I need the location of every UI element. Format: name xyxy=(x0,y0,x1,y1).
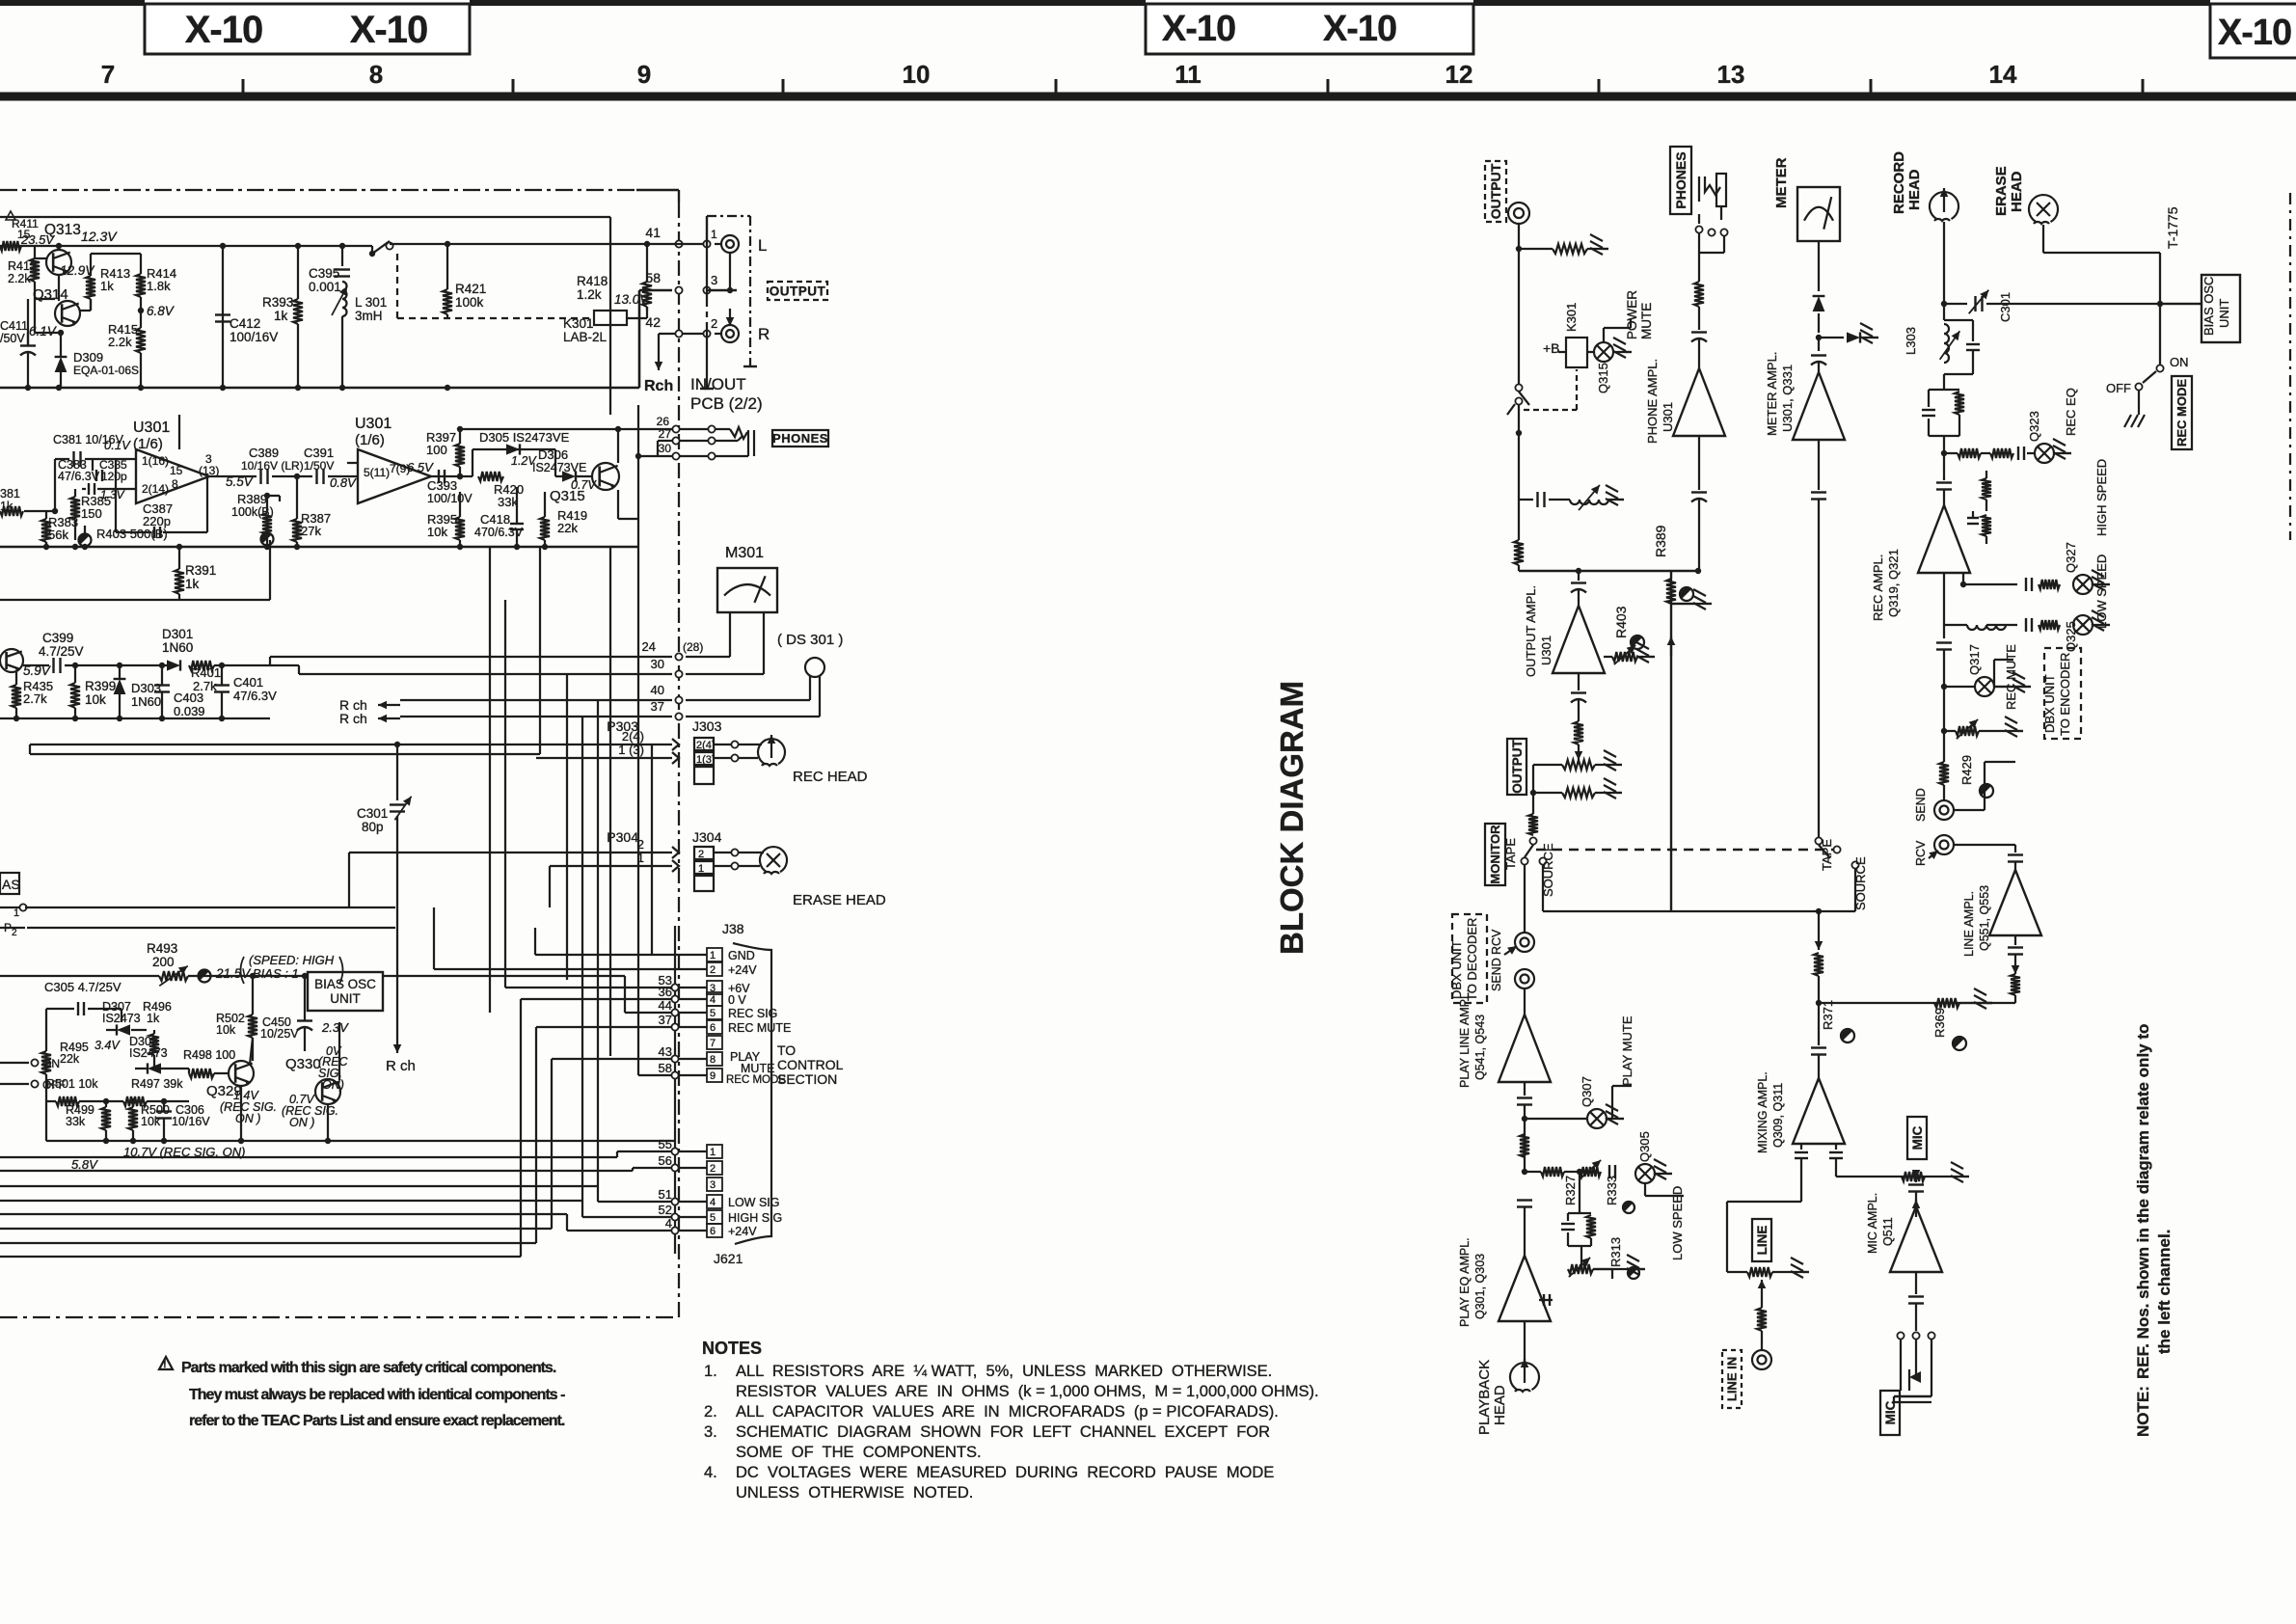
svg-text:33k: 33k xyxy=(498,495,518,509)
svg-text:55: 55 xyxy=(659,1137,672,1151)
svg-text:ON ): ON ) xyxy=(235,1112,260,1125)
svg-text:3mH: 3mH xyxy=(355,309,383,323)
output jack L xyxy=(721,235,739,253)
svg-text:R501 10k: R501 10k xyxy=(46,1077,98,1091)
svg-text:SEND: SEND xyxy=(1490,958,1503,991)
svg-text:C301: C301 xyxy=(357,806,388,821)
svg-text:1: 1 xyxy=(698,863,704,875)
svg-text:Q319, Q321: Q319, Q321 xyxy=(1886,549,1901,617)
svg-text:30: 30 xyxy=(651,657,664,671)
svg-text:ON): ON) xyxy=(322,1078,344,1092)
svg-text:10/25V: 10/25V xyxy=(260,1027,299,1041)
svg-text:REC MUTE: REC MUTE xyxy=(2004,644,2018,710)
svg-text:2.2k: 2.2k xyxy=(108,335,132,349)
title box X-10 left xyxy=(145,4,470,54)
jack RCV encoder xyxy=(1934,835,1954,854)
svg-text:7: 7 xyxy=(101,60,115,89)
phones jack symbol xyxy=(708,425,715,432)
svg-text:HIGH SPEED: HIGH SPEED xyxy=(2094,459,2109,536)
r327 sub network xyxy=(1579,1172,1580,1213)
svg-text:TO: TO xyxy=(777,1042,796,1058)
svg-text:MONITOR: MONITOR xyxy=(1488,825,1502,884)
rec mode switch xyxy=(2157,301,2163,307)
branch low speed xyxy=(1522,1169,1527,1175)
wire J621 row4 xyxy=(0,1213,567,1215)
line pot row xyxy=(1727,1271,1747,1273)
wire P303 row2 xyxy=(536,757,672,759)
svg-text:10k: 10k xyxy=(85,692,106,707)
wire top feed xyxy=(0,216,610,218)
vertical from R389 xyxy=(1670,571,1672,911)
wire bias row to J38 xyxy=(383,975,625,977)
wire bus bottom upper-section xyxy=(0,387,639,390)
svg-text:U301: U301 xyxy=(355,416,392,432)
label PHONES box (block) xyxy=(1670,147,1691,214)
svg-text:OFF: OFF xyxy=(2106,381,2131,395)
svg-text:BLOCK DIAGRAM: BLOCK DIAGRAM xyxy=(1274,681,1310,955)
svg-text:2: 2 xyxy=(698,849,704,860)
svg-text:REC HEAD: REC HEAD xyxy=(793,769,868,785)
dashed monitor line xyxy=(1536,849,1837,851)
svg-text:1(16): 1(16) xyxy=(142,454,169,468)
resistor to ground top xyxy=(1516,246,1522,252)
wire P304 row2 xyxy=(550,865,672,867)
label OUTPUT solid (block) xyxy=(1507,739,1526,795)
svg-text:LINE: LINE xyxy=(1755,1226,1769,1256)
svg-text:X-10: X-10 xyxy=(2218,13,2291,53)
svg-text:Rch: Rch xyxy=(644,378,673,394)
svg-text:11: 11 xyxy=(1175,60,1202,89)
svg-text:AS: AS xyxy=(2,877,20,892)
svg-text:Q323: Q323 xyxy=(2027,411,2041,442)
svg-text:Q301, Q303: Q301, Q303 xyxy=(1473,1254,1487,1319)
svg-text:1N60: 1N60 xyxy=(131,694,161,709)
svg-text:6: 6 xyxy=(710,1022,716,1034)
svg-text:10k: 10k xyxy=(141,1115,161,1128)
label MONITOR box xyxy=(1485,824,1505,885)
svg-text:ON ): ON ) xyxy=(289,1116,314,1129)
wire row27 xyxy=(658,440,672,442)
svg-text:C401: C401 xyxy=(233,675,263,690)
amp LINE AMPL xyxy=(2014,845,2016,853)
output ampl chain down xyxy=(1578,673,1580,690)
svg-text:HEAD: HEAD xyxy=(1906,169,1923,210)
wire REC MODE row xyxy=(637,547,639,1075)
svg-text:Q330: Q330 xyxy=(285,1056,321,1072)
svg-text:J303: J303 xyxy=(692,718,722,734)
branch play mute Q307 xyxy=(1522,1116,1527,1122)
svg-text:C411: C411 xyxy=(0,319,28,333)
svg-text:1: 1 xyxy=(710,950,716,961)
svg-text:Q551, Q553: Q551, Q553 xyxy=(1978,885,1991,951)
cap rec chain xyxy=(1943,453,1945,480)
dashed link to relay xyxy=(1524,409,1577,411)
phones jack (block) xyxy=(1699,176,1720,202)
svg-text:PHONES: PHONES xyxy=(1673,151,1688,208)
wire top bus xyxy=(0,245,372,247)
svg-text:2: 2 xyxy=(710,1163,716,1175)
svg-text:10k: 10k xyxy=(216,1023,236,1037)
svg-text:OUTPUT: OUTPUT xyxy=(1510,740,1525,794)
svg-text:C399: C399 xyxy=(42,631,73,645)
svg-text:0.8V: 0.8V xyxy=(330,475,357,490)
svg-text:+24V: +24V xyxy=(728,1225,757,1238)
svg-text:D305 IS2473VE: D305 IS2473VE xyxy=(479,430,570,445)
svg-text:EQA-01-06S: EQA-01-06S xyxy=(73,364,139,377)
svg-text:J621: J621 xyxy=(714,1251,743,1266)
svg-text:4: 4 xyxy=(710,994,716,1006)
svg-text:1k: 1k xyxy=(100,279,114,293)
svg-text:24: 24 xyxy=(642,639,656,654)
svg-text:the left channel.: the left channel. xyxy=(2155,1230,2174,1354)
svg-text:PCB (2/2): PCB (2/2) xyxy=(690,394,763,413)
svg-text:C301: C301 xyxy=(1998,292,2012,322)
svg-text:4.: 4. xyxy=(704,1464,717,1481)
svg-text:UNLESS OTHERWISE NOTED.: UNLESS OTHERWISE NOTED. xyxy=(736,1484,973,1502)
title box X-10 right xyxy=(2210,4,2296,58)
svg-text:UNIT: UNIT xyxy=(2217,299,2231,328)
label DBX UNIT TO DECODER xyxy=(1452,914,1487,1003)
svg-text:R403 500(B): R403 500(B) xyxy=(96,527,168,541)
svg-text:27k: 27k xyxy=(301,524,321,538)
svg-text:10/16V: 10/16V xyxy=(172,1115,210,1128)
rec head contacts xyxy=(731,741,738,747)
svg-text:C389: C389 xyxy=(249,446,279,460)
svg-text:IS2473: IS2473 xyxy=(102,1012,141,1025)
svg-text:58: 58 xyxy=(645,270,661,285)
line amp out xyxy=(2014,935,2016,945)
wire GND row xyxy=(535,954,707,956)
svg-text:2(4): 2(4) xyxy=(622,729,644,744)
erase head symbol xyxy=(760,847,787,872)
svg-text:IS2473VE: IS2473VE xyxy=(532,461,586,474)
svg-text:L303: L303 xyxy=(1904,327,1918,355)
cap mixing xyxy=(1818,1003,1820,1045)
svg-text:C412: C412 xyxy=(230,316,260,331)
svg-text:R498 100: R498 100 xyxy=(183,1048,235,1062)
switch speed ON/OFF xyxy=(31,1059,38,1066)
svg-text:U301: U301 xyxy=(1661,402,1675,432)
svg-text:22k: 22k xyxy=(60,1052,80,1066)
svg-text:U301, Q331: U301, Q331 xyxy=(1780,365,1795,432)
svg-text:6.1V: 6.1V xyxy=(29,324,58,338)
wire 58 output vertical xyxy=(638,290,641,388)
wire bias bottom rail xyxy=(46,1140,405,1142)
svg-text:CONTROL: CONTROL xyxy=(777,1057,844,1072)
svg-text:P304: P304 xyxy=(607,829,638,845)
svg-text:23.5V: 23.5V xyxy=(20,232,55,247)
svg-text:HEAD: HEAD xyxy=(2009,171,2025,212)
svg-text:Q541, Q543: Q541, Q543 xyxy=(1473,1015,1487,1080)
svg-text:4: 4 xyxy=(710,1197,716,1208)
svg-text:RECORD: RECORD xyxy=(1891,151,1907,214)
cap into play eq amp xyxy=(1517,1199,1532,1201)
svg-text:2.: 2. xyxy=(704,1403,717,1421)
svg-text:27: 27 xyxy=(659,427,672,441)
svg-text:X-10: X-10 xyxy=(185,9,263,51)
svg-text:26: 26 xyxy=(657,415,670,428)
jack SEND encoder xyxy=(1934,800,1954,820)
svg-text:PHONE AMPL.: PHONE AMPL. xyxy=(1645,359,1660,444)
label BIAS box partial xyxy=(0,873,19,894)
phones contacts xyxy=(1695,226,1702,232)
svg-text:!: ! xyxy=(163,1359,167,1370)
diode meter xyxy=(1813,296,1825,311)
svg-text:METER: METER xyxy=(1773,157,1790,208)
svg-text:X-10: X-10 xyxy=(350,9,428,51)
svg-text:D301: D301 xyxy=(162,627,193,641)
svg-text:ON: ON xyxy=(2170,355,2189,369)
svg-text:R497 39k: R497 39k xyxy=(131,1077,183,1091)
svg-text:TAPE: TAPE xyxy=(1820,839,1834,871)
svg-text:TO DECODER: TO DECODER xyxy=(1465,918,1479,1001)
svg-text:BIAS OSC: BIAS OSC xyxy=(314,977,376,991)
svg-text:M301: M301 xyxy=(725,545,764,561)
svg-text:220p: 220p xyxy=(143,514,171,528)
svg-text:ERASE: ERASE xyxy=(1993,166,2010,216)
svg-text:PLAYBACK: PLAYBACK xyxy=(1476,1360,1493,1435)
svg-text:(1/6): (1/6) xyxy=(355,432,385,448)
PCB boundary dash-dot vertical xyxy=(678,190,680,203)
svg-text:2.7k: 2.7k xyxy=(193,679,217,693)
parallel rc 2 xyxy=(1929,389,1959,391)
svg-text:21.5V: 21.5V xyxy=(215,966,252,981)
svg-text:9: 9 xyxy=(637,60,651,89)
svg-text:U301: U301 xyxy=(133,420,170,436)
svg-text:R429: R429 xyxy=(1959,755,1974,785)
svg-text:REC EQ: REC EQ xyxy=(2064,388,2078,436)
wire J621 row55 xyxy=(0,1156,617,1158)
svg-text:100: 100 xyxy=(426,443,447,457)
svg-text:MIC: MIC xyxy=(1910,1125,1925,1150)
svg-text:MIC: MIC xyxy=(1883,1400,1898,1424)
svg-text:OUTPUT: OUTPUT xyxy=(770,284,826,298)
svg-text:1k: 1k xyxy=(147,1012,160,1025)
wire REC MUTE row xyxy=(0,1242,536,1244)
svg-text:REC SIG: REC SIG xyxy=(728,1007,777,1020)
wire vertical col C412 xyxy=(222,246,224,388)
resistor R369 xyxy=(1934,998,1959,1008)
svg-text:Q315: Q315 xyxy=(1596,363,1610,393)
wire PLAY row xyxy=(0,1228,552,1230)
svg-text:UNIT: UNIT xyxy=(330,991,361,1006)
wire row 24 xyxy=(270,656,672,658)
page top rule xyxy=(0,0,145,6)
svg-text:51: 51 xyxy=(659,1187,672,1202)
svg-text:42: 42 xyxy=(645,314,661,330)
jack SEND decoder xyxy=(1515,969,1534,988)
svg-text:3.: 3. xyxy=(704,1423,717,1441)
mic contacts xyxy=(1897,1332,1904,1339)
source contact xyxy=(1539,857,1546,864)
svg-text:LOW SPEED: LOW SPEED xyxy=(2094,555,2109,629)
right edge dash line xyxy=(2289,193,2291,540)
svg-text:HEAD: HEAD xyxy=(1492,1385,1508,1425)
svg-text:Q315: Q315 xyxy=(550,488,585,504)
tape contact xyxy=(1521,857,1527,864)
wire lower link row xyxy=(0,599,270,601)
svg-text:Q317: Q317 xyxy=(1967,644,1982,675)
wire row37 xyxy=(400,716,672,717)
svg-text:14: 14 xyxy=(1989,60,2017,89)
label MIC box bottom xyxy=(1880,1391,1900,1435)
svg-text:200: 200 xyxy=(152,955,175,969)
wire stub p1 xyxy=(19,904,26,910)
svg-text:2.3V: 2.3V xyxy=(321,1020,349,1035)
svg-text:+B: +B xyxy=(1543,340,1560,356)
boundary vertical solid segment xyxy=(674,926,676,1254)
svg-text:Q307: Q307 xyxy=(1580,1076,1594,1107)
svg-text:L: L xyxy=(758,236,767,255)
svg-text:SEND: SEND xyxy=(1914,788,1928,822)
phone amp chain down xyxy=(1698,436,1700,490)
capacitor into output ampl xyxy=(1578,571,1580,581)
svg-text:37: 37 xyxy=(659,1013,672,1027)
svg-text:R421: R421 xyxy=(455,282,486,296)
svg-text:Q305: Q305 xyxy=(1637,1131,1652,1162)
svg-text:36: 36 xyxy=(659,985,672,999)
svg-text:SOME OF THE COMPONENTS.: SOME OF THE COMPONENTS. xyxy=(736,1444,982,1461)
wire right border vertical xyxy=(637,405,639,547)
svg-text:0.1V: 0.1V xyxy=(104,438,131,452)
label LINE box xyxy=(1752,1219,1771,1261)
svg-text:3.4V: 3.4V xyxy=(95,1039,121,1052)
svg-text:LINE IN: LINE IN xyxy=(1725,1357,1740,1401)
pot row 1 xyxy=(1562,760,1595,770)
label PHONES box xyxy=(772,430,828,447)
svg-text:Q309, Q311: Q309, Q311 xyxy=(1771,1083,1785,1148)
wire row26 xyxy=(460,428,672,430)
svg-text:OUTPUT AMPL.: OUTPUT AMPL. xyxy=(1524,585,1538,677)
variable cap C301 (block) xyxy=(1941,301,1947,307)
svg-text:1/50V: 1/50V xyxy=(304,459,334,473)
pot R429 xyxy=(1941,728,1947,734)
svg-text:6.5V: 6.5V xyxy=(407,460,434,474)
svg-text:33k: 33k xyxy=(66,1115,86,1128)
svg-text:R389: R389 xyxy=(1653,525,1668,557)
svg-text:1.: 1. xyxy=(704,1363,717,1380)
lamp Q315 (block) xyxy=(1594,342,1613,362)
svg-text:8: 8 xyxy=(369,60,383,89)
svg-text:C418: C418 xyxy=(480,512,510,527)
svg-text:DBX UNIT: DBX UNIT xyxy=(2042,674,2057,733)
record head symbol xyxy=(758,739,785,764)
svg-text:R393: R393 xyxy=(262,295,293,310)
svg-text:13.0V: 13.0V xyxy=(614,292,650,307)
wire tape to rcv xyxy=(1524,865,1526,932)
svg-text:Parts marked with this sign ar: Parts marked with this sign are safety c… xyxy=(181,1360,556,1376)
svg-text:NOTES: NOTES xyxy=(702,1339,762,1358)
svg-text:ALL RESISTORS ARE ¼ WATT,: ALL RESISTORS ARE ¼ WATT, 5%, UNLESS MAR… xyxy=(736,1363,1272,1380)
svg-text:REC AMPL.: REC AMPL. xyxy=(1871,555,1885,621)
svg-text:56: 56 xyxy=(659,1153,672,1168)
tape source switch 2 xyxy=(1815,837,1822,844)
long verticals mid xyxy=(489,547,491,1013)
svg-text:MUTE: MUTE xyxy=(1639,303,1654,339)
svg-text:R493: R493 xyxy=(147,941,177,956)
svg-text:80p: 80p xyxy=(362,820,384,834)
svg-text:GND: GND xyxy=(728,949,755,962)
svg-text:1k: 1k xyxy=(185,577,200,591)
svg-text:37: 37 xyxy=(651,699,664,714)
cap below play line amp xyxy=(1524,1082,1526,1096)
branch rec mute Q317 xyxy=(1941,684,1947,690)
svg-text:0.039: 0.039 xyxy=(174,704,205,718)
svg-text:R ch: R ch xyxy=(339,711,367,726)
svg-text:MIC AMPL.: MIC AMPL. xyxy=(1866,1193,1879,1254)
svg-text:D306: D306 xyxy=(538,447,568,462)
monitor switch lower xyxy=(1532,793,1534,814)
svg-text:7: 7 xyxy=(710,1038,716,1049)
svg-text:LAB-2L: LAB-2L xyxy=(563,330,608,344)
svg-text:0 V: 0 V xyxy=(728,993,746,1007)
svg-text:METER AMPL.: METER AMPL. xyxy=(1765,352,1779,436)
svg-text:Q511: Q511 xyxy=(1881,1217,1895,1246)
svg-text:PLAY LINE AMPL.: PLAY LINE AMPL. xyxy=(1458,989,1472,1088)
svg-text:X-10: X-10 xyxy=(1162,9,1235,49)
svg-text:X-10: X-10 xyxy=(1323,9,1396,49)
svg-text:BIAS OSC: BIAS OSC xyxy=(2201,277,2216,336)
svg-text:R369: R369 xyxy=(1932,1008,1947,1038)
svg-text:47/6.3V: 47/6.3V xyxy=(58,470,100,483)
svg-text:T-1775: T-1775 xyxy=(2165,206,2180,249)
branch L301 (block) xyxy=(1519,499,1533,501)
svg-text:+24V: +24V xyxy=(728,963,757,977)
mic symbol xyxy=(1901,1369,1909,1391)
erase head contacts xyxy=(731,849,738,855)
svg-text:U301: U301 xyxy=(1539,636,1553,665)
svg-text:/50V: /50V xyxy=(0,332,25,345)
svg-text:LOW SPEED: LOW SPEED xyxy=(1670,1186,1685,1260)
wire box border upper xyxy=(30,753,540,755)
svg-text:47/6.3V: 47/6.3V xyxy=(233,689,277,703)
svg-text:RESISTOR VALUES ARE IN OHM: RESISTOR VALUES ARE IN OHMS (k = 1,000 O… xyxy=(736,1383,1319,1400)
meter symbol (block) xyxy=(1797,187,1840,241)
svg-text:100/10V: 100/10V xyxy=(427,492,473,505)
svg-text:J304: J304 xyxy=(692,829,722,845)
svg-text:R313: R313 xyxy=(1608,1237,1623,1267)
svg-text:IS2473: IS2473 xyxy=(129,1046,168,1060)
wire P304 row1 xyxy=(349,852,672,853)
svg-text:13: 13 xyxy=(1717,60,1745,89)
svg-text:SECTION: SECTION xyxy=(777,1071,837,1087)
pot R313 xyxy=(1568,1264,1593,1274)
mic ampl chain xyxy=(1915,1177,1917,1178)
svg-text:DC VOLTAGES WERE MEASURED: DC VOLTAGES WERE MEASURED DURING RECORD … xyxy=(736,1464,1274,1481)
svg-text:OUTPUT: OUTPUT xyxy=(1488,163,1503,219)
wire row30b xyxy=(299,673,672,675)
svg-text:150: 150 xyxy=(81,506,102,521)
wire P303 row1 xyxy=(30,744,672,745)
svg-text:K301: K301 xyxy=(1564,303,1579,332)
wire row30 xyxy=(638,455,672,457)
label REC MODE box xyxy=(2172,376,2192,449)
svg-text:LINE AMPL.: LINE AMPL. xyxy=(1962,891,1976,957)
svg-text:D303: D303 xyxy=(131,681,161,695)
svg-text:L 301: L 301 xyxy=(355,295,387,310)
label OUTPUT dashed (block) xyxy=(1485,161,1506,222)
wire bias row xyxy=(231,975,308,977)
svg-text:R333: R333 xyxy=(1605,1176,1619,1205)
svg-text:5.8V: 5.8V xyxy=(71,1157,98,1172)
svg-text:1: 1 xyxy=(711,228,717,241)
svg-text:15: 15 xyxy=(170,464,183,477)
svg-text:12.3V: 12.3V xyxy=(81,229,118,244)
svg-text:58: 58 xyxy=(659,1061,672,1075)
label OUTPUT box xyxy=(768,282,827,300)
svg-text:44: 44 xyxy=(659,998,672,1013)
svg-text:MUTE: MUTE xyxy=(741,1062,774,1075)
